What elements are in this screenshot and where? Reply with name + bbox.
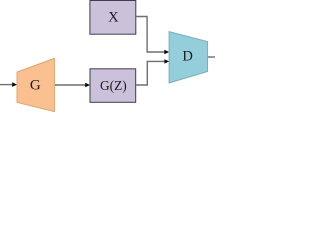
wire D output: [208, 56, 215, 58]
wire G(Z) to D (elbow): [136, 61, 165, 85]
wire input arrow into G: [0, 84, 13, 86]
svg-text:G(Z): G(Z): [100, 78, 127, 93]
node G(Z) box: [90, 69, 136, 103]
svg-text:X: X: [108, 10, 119, 26]
svg-text:D: D: [182, 49, 193, 65]
discriminator D trapezoid: [169, 32, 208, 83]
svg-text:G: G: [30, 78, 41, 94]
generator G trapezoid: [17, 58, 54, 111]
wire X to D (elbow): [136, 17, 165, 53]
node X box: [90, 1, 136, 35]
wire G to G(Z): [55, 84, 86, 86]
